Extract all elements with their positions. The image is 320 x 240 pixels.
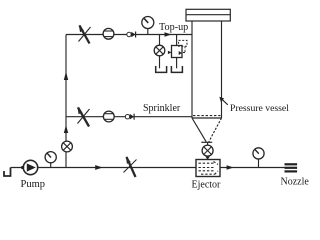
svg-text:Nozzle: Nozzle <box>281 176 310 187</box>
svg-text:Sprinkler: Sprinkler <box>143 103 181 114</box>
svg-text:Top-up: Top-up <box>159 22 188 33</box>
svg-text:Pressure vessel: Pressure vessel <box>230 103 289 114</box>
svg-text:Pump: Pump <box>21 179 46 190</box>
svg-text:Ejector: Ejector <box>192 180 222 191</box>
